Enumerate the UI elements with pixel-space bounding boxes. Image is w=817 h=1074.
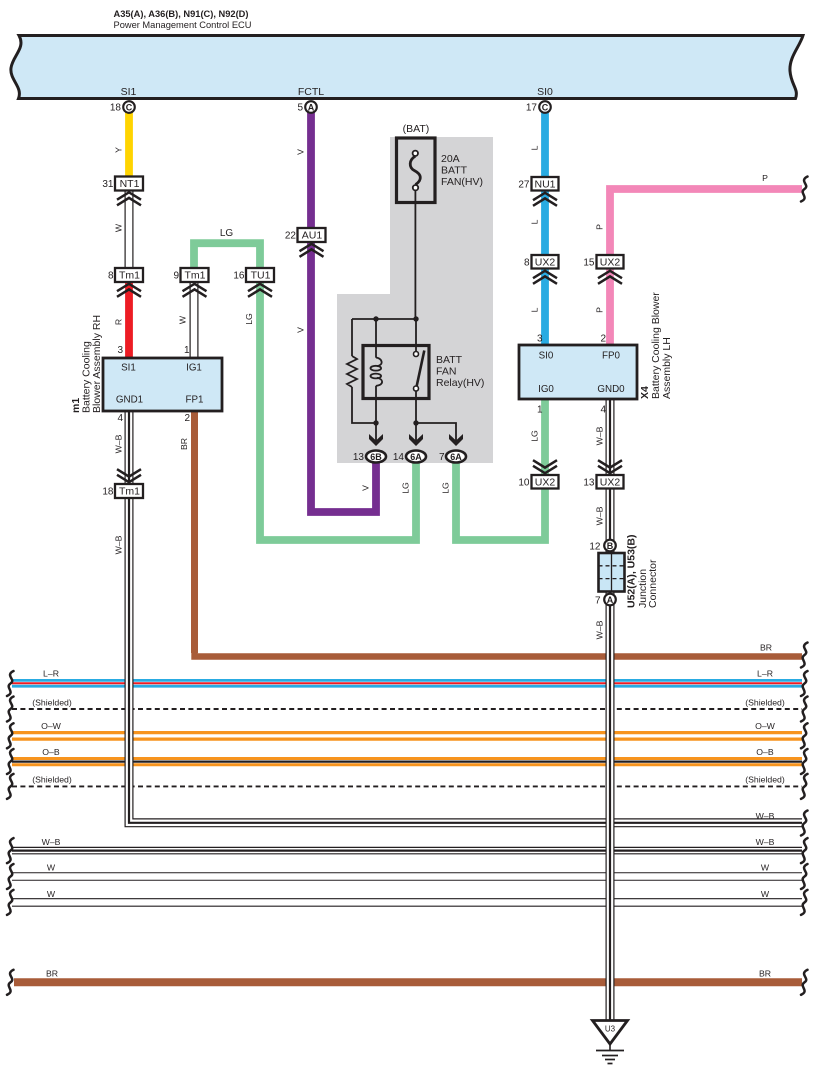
svg-text:2: 2 xyxy=(184,413,190,424)
svg-text:W–B: W–B xyxy=(595,506,605,525)
svg-text:W–B: W–B xyxy=(595,620,605,639)
svg-text:AU1: AU1 xyxy=(302,230,323,242)
svg-text:17: 17 xyxy=(526,103,538,114)
svg-text:V: V xyxy=(296,327,306,333)
svg-text:R: R xyxy=(114,319,124,325)
svg-text:BATT: BATT xyxy=(441,165,468,177)
svg-text:GND1: GND1 xyxy=(116,395,143,406)
svg-text:W: W xyxy=(114,223,124,232)
svg-text:U3: U3 xyxy=(605,1025,616,1034)
svg-text:L–R: L–R xyxy=(43,669,59,679)
svg-text:O–W: O–W xyxy=(755,721,776,731)
svg-text:A35(A), A36(B), N91(C), N92(D): A35(A), A36(B), N91(C), N92(D) xyxy=(114,9,249,19)
svg-text:(BAT): (BAT) xyxy=(403,123,430,135)
svg-text:Connector: Connector xyxy=(647,559,659,608)
svg-text:LG: LG xyxy=(220,228,234,239)
svg-text:Relay(HV): Relay(HV) xyxy=(436,377,484,389)
svg-text:13: 13 xyxy=(583,478,595,489)
svg-text:W–B: W–B xyxy=(756,811,775,821)
svg-text:V: V xyxy=(296,149,306,155)
svg-text:P: P xyxy=(762,173,768,183)
svg-text:W–B: W–B xyxy=(114,434,124,453)
svg-text:NT1: NT1 xyxy=(120,178,140,190)
svg-text:TU1: TU1 xyxy=(251,270,271,282)
svg-text:A: A xyxy=(308,103,315,113)
svg-text:Assembly LH: Assembly LH xyxy=(661,337,673,399)
svg-text:BR: BR xyxy=(179,438,189,450)
svg-text:O–W: O–W xyxy=(41,721,62,731)
svg-text:6A: 6A xyxy=(450,452,462,462)
svg-text:18: 18 xyxy=(102,487,114,498)
svg-text:W–B: W–B xyxy=(756,837,775,847)
svg-text:U52(A), U53(B): U52(A), U53(B) xyxy=(626,534,638,608)
svg-text:2: 2 xyxy=(600,334,606,345)
svg-text:SI1: SI1 xyxy=(121,86,137,98)
svg-text:BR: BR xyxy=(46,969,58,979)
svg-text:SI0: SI0 xyxy=(537,86,553,98)
svg-text:IG0: IG0 xyxy=(538,384,554,395)
svg-text:A: A xyxy=(607,595,614,605)
svg-text:FCTL: FCTL xyxy=(298,86,324,98)
svg-text:W: W xyxy=(761,889,770,899)
svg-text:LG: LG xyxy=(244,313,254,325)
svg-text:O–B: O–B xyxy=(756,747,774,757)
svg-text:NU1: NU1 xyxy=(534,179,555,191)
svg-text:L–R: L–R xyxy=(757,669,773,679)
svg-text:27: 27 xyxy=(518,180,530,191)
svg-text:4: 4 xyxy=(600,405,606,416)
svg-text:Tm1: Tm1 xyxy=(119,270,140,282)
svg-text:SI1: SI1 xyxy=(121,363,136,374)
svg-text:13: 13 xyxy=(353,452,365,463)
svg-text:LG: LG xyxy=(401,482,411,494)
svg-text:W: W xyxy=(761,863,770,873)
svg-text:10: 10 xyxy=(518,478,530,489)
svg-text:B: B xyxy=(607,541,614,551)
svg-text:SI0: SI0 xyxy=(539,351,554,362)
svg-text:W: W xyxy=(47,863,56,873)
svg-text:31: 31 xyxy=(102,179,114,190)
svg-text:BR: BR xyxy=(760,643,772,653)
svg-text:1: 1 xyxy=(184,345,190,356)
svg-text:LG: LG xyxy=(530,430,540,442)
svg-text:9: 9 xyxy=(173,271,179,282)
svg-text:3: 3 xyxy=(117,345,123,356)
svg-text:12: 12 xyxy=(589,542,601,553)
svg-text:(Shielded): (Shielded) xyxy=(745,775,785,785)
svg-text:W: W xyxy=(178,315,188,324)
svg-text:L: L xyxy=(530,219,540,224)
svg-text:8: 8 xyxy=(524,258,530,269)
svg-text:FAN: FAN xyxy=(436,366,456,378)
svg-text:UX2: UX2 xyxy=(600,257,621,269)
svg-text:FP1: FP1 xyxy=(186,395,204,406)
svg-text:18: 18 xyxy=(110,103,122,114)
svg-text:8: 8 xyxy=(108,271,114,282)
svg-text:16: 16 xyxy=(233,271,245,282)
svg-text:22: 22 xyxy=(285,231,297,242)
svg-text:UX2: UX2 xyxy=(535,257,556,269)
svg-text:C: C xyxy=(126,103,133,113)
svg-text:6B: 6B xyxy=(370,452,382,462)
svg-text:20A: 20A xyxy=(441,153,460,165)
svg-text:V: V xyxy=(361,485,371,491)
svg-text:C: C xyxy=(542,103,549,113)
svg-text:P: P xyxy=(595,224,605,230)
svg-text:FP0: FP0 xyxy=(602,351,621,362)
svg-text:Power Management Control ECU: Power Management Control ECU xyxy=(114,20,252,30)
svg-text:Tm1: Tm1 xyxy=(185,270,206,282)
svg-text:(Shielded): (Shielded) xyxy=(745,698,785,708)
svg-text:UX2: UX2 xyxy=(535,477,556,489)
svg-text:W–B: W–B xyxy=(114,535,124,554)
svg-text:Blower Assembly RH: Blower Assembly RH xyxy=(91,315,103,413)
svg-text:L: L xyxy=(530,307,540,312)
svg-text:FAN(HV): FAN(HV) xyxy=(441,176,483,188)
svg-text:Y: Y xyxy=(114,147,124,153)
svg-text:7: 7 xyxy=(595,596,601,607)
svg-text:UX2: UX2 xyxy=(600,477,621,489)
svg-text:3: 3 xyxy=(537,334,543,345)
svg-text:BATT: BATT xyxy=(436,354,463,366)
svg-text:Tm1: Tm1 xyxy=(119,486,140,498)
svg-text:P: P xyxy=(595,307,605,313)
svg-text:14: 14 xyxy=(393,452,405,463)
svg-text:IG1: IG1 xyxy=(186,363,202,374)
svg-text:GND0: GND0 xyxy=(597,384,625,395)
svg-text:(Shielded): (Shielded) xyxy=(32,698,72,708)
svg-text:7: 7 xyxy=(439,452,445,463)
svg-text:W–B: W–B xyxy=(42,837,61,847)
svg-text:L: L xyxy=(530,145,540,150)
svg-text:(Shielded): (Shielded) xyxy=(32,775,72,785)
svg-text:W: W xyxy=(47,889,56,899)
svg-text:5: 5 xyxy=(297,103,303,114)
svg-text:W–B: W–B xyxy=(595,426,605,445)
svg-text:1: 1 xyxy=(537,405,543,416)
svg-text:4: 4 xyxy=(117,413,123,424)
svg-text:LG: LG xyxy=(441,482,451,494)
svg-text:6A: 6A xyxy=(410,452,422,462)
svg-text:O–B: O–B xyxy=(42,747,60,757)
svg-text:15: 15 xyxy=(583,258,595,269)
svg-text:BR: BR xyxy=(759,969,771,979)
